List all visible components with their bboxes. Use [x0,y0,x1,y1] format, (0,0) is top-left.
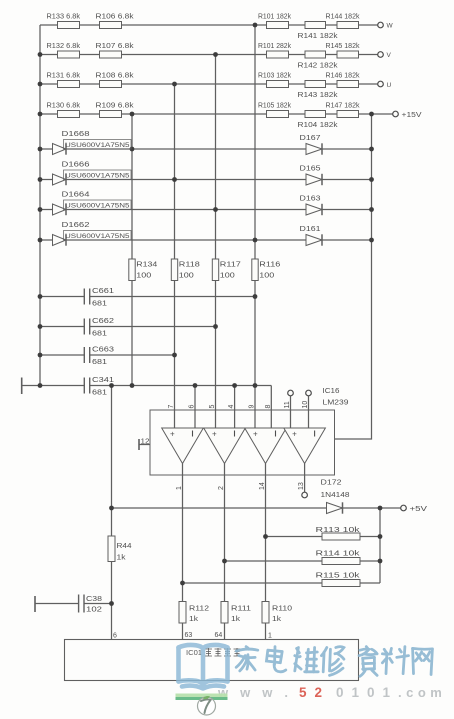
svg-text:R144 182k: R144 182k [326,14,361,21]
svg-text:R132 6.8k: R132 6.8k [47,43,81,50]
svg-text:C661: C661 [92,288,114,295]
svg-text:R101 182k: R101 182k [258,14,291,21]
svg-text:R141 182k: R141 182k [298,33,339,40]
svg-text:100: 100 [220,273,235,280]
svg-text:R147 182k: R147 182k [326,103,361,110]
svg-text:C341: C341 [92,377,114,384]
svg-text:R113 10k: R113 10k [316,527,361,534]
svg-text:+: + [253,430,258,439]
svg-text:R108 6.8k: R108 6.8k [96,73,135,80]
svg-text:R146 182k: R146 182k [326,73,361,80]
svg-text:D172: D172 [321,480,342,487]
svg-text:R112: R112 [189,606,209,613]
svg-text:6: 6 [189,405,196,409]
svg-text:8: 8 [265,405,272,409]
svg-text:11: 11 [284,401,291,408]
svg-text:R103 182k: R103 182k [258,73,291,80]
svg-text:R115 10k: R115 10k [316,573,361,580]
svg-text:C663: C663 [92,347,114,354]
svg-text:+: + [170,430,175,439]
svg-text:C662: C662 [92,318,114,325]
svg-text:1k: 1k [272,616,282,623]
svg-text:1: 1 [268,633,272,640]
svg-text:USU600V1A75N5: USU600V1A75N5 [65,233,130,240]
svg-text:R101 282k: R101 282k [258,43,291,50]
svg-text:100: 100 [136,273,151,280]
svg-text:2: 2 [218,486,225,490]
svg-text:R114 10k: R114 10k [316,551,361,558]
svg-text:R110: R110 [272,606,292,613]
svg-text:100: 100 [259,273,274,280]
svg-text:R118: R118 [179,262,200,269]
svg-text:USU600V1A75N5: USU600V1A75N5 [65,172,130,179]
svg-text:6: 6 [113,633,117,640]
svg-text:D1662: D1662 [62,222,90,229]
svg-text:R116: R116 [259,262,280,269]
svg-text:5: 5 [209,405,216,409]
svg-text:4: 4 [228,405,235,409]
svg-text:R104 182k: R104 182k [298,122,339,129]
svg-text:12: 12 [141,439,150,446]
svg-text:USU600V1A75N5: USU600V1A75N5 [65,142,130,149]
svg-text:D1664: D1664 [62,192,90,199]
svg-text:R107 6.8k: R107 6.8k [96,43,135,50]
svg-text:.com: .com [398,685,446,700]
svg-text:1: 1 [176,486,183,490]
svg-text:D167: D167 [300,135,321,142]
svg-text:IC16: IC16 [323,388,340,395]
svg-text:R130 6.8k: R130 6.8k [47,103,81,110]
svg-text:R131 6.8k: R131 6.8k [47,73,81,80]
svg-text:7: 7 [168,405,175,409]
svg-text:U: U [387,82,392,89]
svg-text:1k: 1k [231,616,241,623]
svg-text:+: + [212,430,217,439]
svg-text:+: + [292,430,297,439]
svg-text:USU600V1A75N5: USU600V1A75N5 [65,202,130,209]
svg-text:C38: C38 [86,596,102,603]
svg-text:V: V [387,52,392,59]
svg-text:+15V: +15V [402,112,422,119]
svg-text:R111: R111 [231,606,251,613]
svg-text:D161: D161 [300,226,321,233]
svg-text:R142 182k: R142 182k [298,63,339,70]
svg-text:100: 100 [179,273,194,280]
svg-text:1k: 1k [117,555,127,562]
svg-text:D1668: D1668 [62,131,90,138]
svg-text:10: 10 [302,401,309,409]
svg-text:1N4148: 1N4148 [321,492,350,499]
svg-text:R106 6.8k: R106 6.8k [96,14,135,21]
svg-text:R109 6.8k: R109 6.8k [96,103,135,110]
svg-text:R143 182k: R143 182k [298,92,339,99]
svg-text:52: 52 [299,685,330,700]
svg-text:1k: 1k [189,616,199,623]
svg-text:64: 64 [215,632,223,639]
svg-text:681: 681 [92,301,107,308]
svg-text:0101: 0101 [336,685,398,700]
svg-text:13: 13 [298,482,305,490]
svg-text:R145 182k: R145 182k [326,43,361,50]
svg-text:+5V: +5V [410,506,428,513]
svg-text:R134: R134 [136,262,157,269]
svg-text:D165: D165 [300,166,321,173]
svg-text:D1666: D1666 [62,162,90,169]
svg-text:R133 6.8k: R133 6.8k [47,14,81,21]
svg-text:681: 681 [92,331,107,338]
svg-text:681: 681 [92,359,107,366]
svg-text:102: 102 [86,607,102,614]
svg-text:14: 14 [259,482,266,490]
svg-text:R105 182k: R105 182k [258,103,291,110]
svg-text:R117: R117 [220,262,241,269]
svg-text:D163: D163 [300,196,321,203]
svg-text:LM239: LM239 [323,400,349,407]
svg-text:9: 9 [249,405,256,409]
svg-text:w w w .: w w w . [217,685,292,700]
svg-text:R44: R44 [117,543,132,550]
svg-text:681: 681 [92,390,107,397]
svg-text:63: 63 [185,632,193,639]
svg-text:IC01: IC01 [186,648,202,657]
svg-text:W: W [387,23,394,30]
